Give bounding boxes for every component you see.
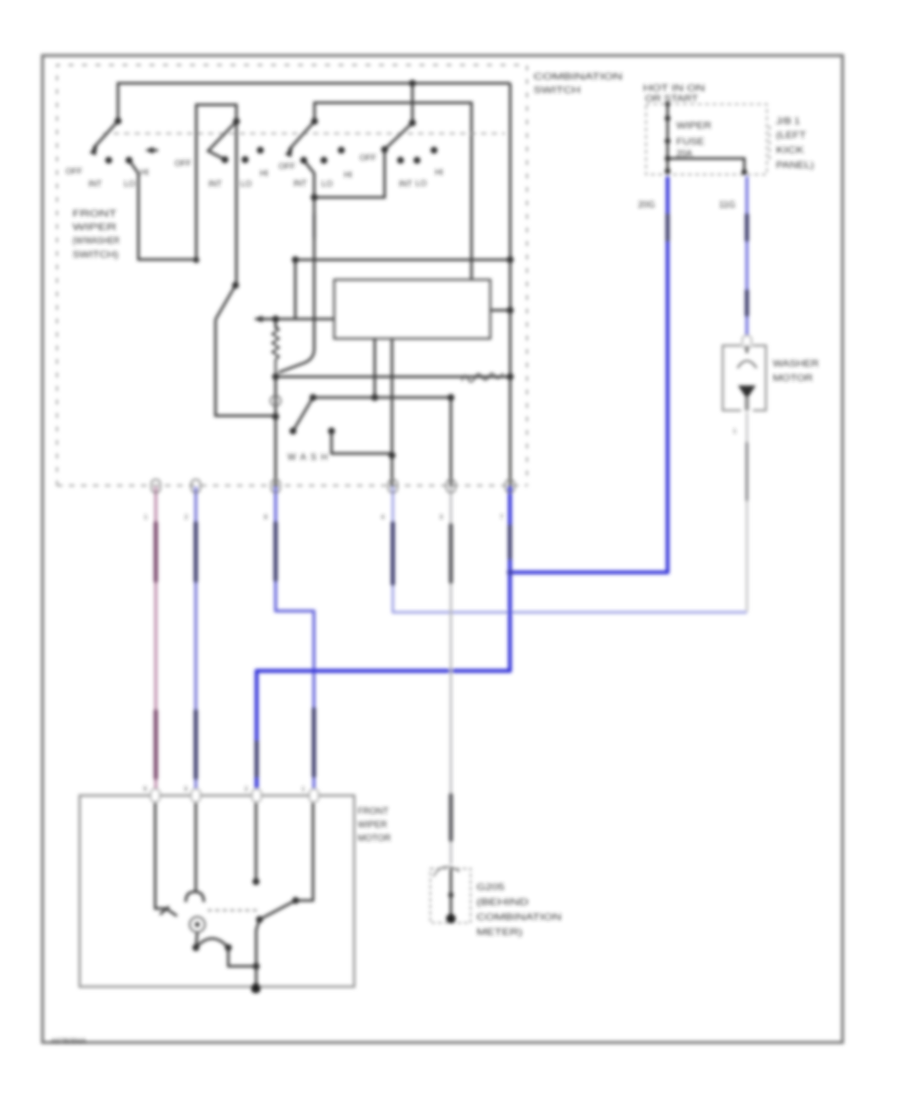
svg-text:OFF: OFF [175,158,192,168]
svg-text:SWITCH): SWITCH) [73,250,119,260]
svg-text:PANEL): PANEL) [776,160,814,170]
svg-text:20G: 20G [638,200,655,210]
svg-text:OFF: OFF [66,166,83,176]
svg-text:20A: 20A [676,149,692,159]
svg-text:HI: HI [435,167,443,177]
svg-text:J/B 1: J/B 1 [776,116,800,126]
svg-text:LO: LO [240,179,252,189]
svg-text:HI: HI [140,167,148,177]
svg-text:COMBINATION: COMBINATION [477,912,562,922]
svg-text:WIPER: WIPER [676,121,712,131]
svg-text:INT: INT [88,179,102,189]
svg-text:LO: LO [124,179,136,189]
svg-text:INT: INT [208,179,222,189]
svg-text:MOTOR: MOTOR [358,833,392,843]
svg-text:HI: HI [260,168,268,178]
svg-text:METER): METER) [477,927,523,937]
svg-text:OFF: OFF [279,161,296,171]
svg-text:HOT IN ON: HOT IN ON [643,83,705,93]
svg-text:OFF: OFF [360,153,377,163]
svg-text:INT: INT [293,178,307,188]
svg-text:WIPER: WIPER [73,222,118,232]
svg-text:SWITCH: SWITCH [534,85,581,96]
svg-text:LO: LO [321,179,333,189]
svg-text:WASHER: WASHER [773,359,820,369]
svg-text:FRONT: FRONT [358,806,389,816]
svg-text:HI: HI [344,170,352,180]
svg-text:MOTOR: MOTOR [773,373,814,383]
svg-text:LO: LO [415,178,427,188]
svg-text:WIPER: WIPER [358,820,388,830]
svg-text:G205: G205 [477,882,505,892]
svg-text:(W/WASHER: (W/WASHER [73,236,120,246]
svg-text:FRONT: FRONT [73,209,118,219]
svg-text:OR START: OR START [645,94,699,104]
svg-text:KICK: KICK [776,145,804,155]
svg-text:A97B05MA: A97B05MA [51,1039,87,1046]
svg-text:FUSE: FUSE [676,137,704,147]
svg-text:COMBINATION: COMBINATION [534,72,623,83]
svg-text:INT: INT [399,179,413,189]
svg-text:11G: 11G [719,200,735,210]
svg-text:(LEFT: (LEFT [776,130,807,140]
svg-text:(BEHIND: (BEHIND [477,897,530,907]
